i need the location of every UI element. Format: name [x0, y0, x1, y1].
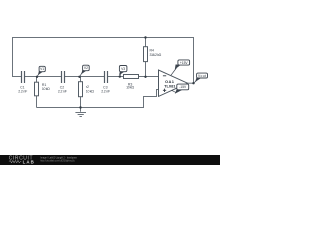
svg-text:316.2 kΩ: 316.2 kΩ — [150, 53, 162, 57]
svg-text:10 kΩ: 10 kΩ — [42, 87, 50, 91]
svg-text:2.2 nF: 2.2 nF — [18, 89, 27, 93]
svg-text:V1: V1 — [40, 67, 44, 71]
svg-text:Vout: Vout — [198, 74, 206, 78]
svg-text:http://circuitlab.com/c6292fgf: http://circuitlab.com/c6292fgfsmp2u — [40, 159, 75, 163]
svg-text:10 kΩ: 10 kΩ — [126, 86, 134, 90]
svg-text:V2: V2 — [84, 66, 88, 70]
svg-text:2.2 nF: 2.2 nF — [58, 89, 67, 93]
svg-text:2.2 nF: 2.2 nF — [101, 89, 110, 93]
svg-text:+15V: +15V — [180, 61, 189, 65]
svg-text:-15V: -15V — [179, 85, 187, 89]
svg-text:R4: R4 — [150, 48, 155, 52]
svg-text:LAB: LAB — [23, 159, 35, 164]
svg-text:V3: V3 — [121, 67, 125, 71]
svg-text:10 kΩ: 10 kΩ — [86, 89, 95, 93]
svg-text:TL081: TL081 — [164, 84, 176, 89]
